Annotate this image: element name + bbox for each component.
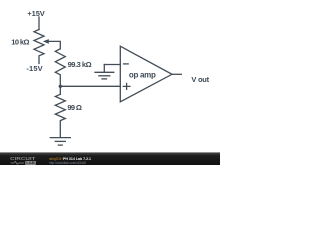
svg-text:+15V: +15V bbox=[27, 9, 45, 18]
svg-text:V out: V out bbox=[191, 75, 209, 84]
svg-text:op amp: op amp bbox=[129, 71, 156, 80]
svg-text:99.3 kΩ: 99.3 kΩ bbox=[68, 60, 92, 69]
svg-text:10 kΩ: 10 kΩ bbox=[11, 38, 29, 47]
svg-text:http://circuitlab.com/c45dd2: http://circuitlab.com/c45dd2 bbox=[49, 161, 86, 165]
svg-text:99 Ω: 99 Ω bbox=[67, 103, 82, 112]
svg-text:-15V: -15V bbox=[26, 64, 42, 73]
svg-text:LAB: LAB bbox=[26, 161, 35, 165]
